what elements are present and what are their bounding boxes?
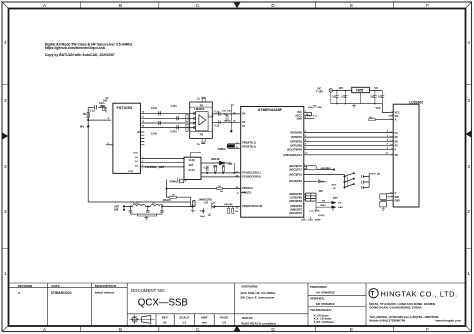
capacitor 33pF PA (200, 214, 211, 218)
wire top RC branch (88, 107, 106, 112)
svg-text:CLK2: CLK2 (189, 159, 196, 162)
svg-text:A: A (395, 119, 397, 122)
wire clk to FST S0 (147, 158, 185, 160)
svg-text:PREPARED:: PREPARED: (310, 285, 327, 289)
svg-text:(ADC3)PC3: (ADC3)PC3 (289, 174, 303, 177)
svg-text:B: B (119, 327, 122, 332)
wire VCC stub U1 (304, 111, 312, 113)
wire data bus RS (304, 154, 393, 156)
svg-text:ISP: ISP (319, 189, 323, 193)
transistor Q2 driver (199, 199, 216, 209)
svg-text:27K: 27K (213, 166, 218, 169)
svg-text:33pF: 33pF (200, 216, 206, 218)
resistor R 100K ladder b (186, 124, 188, 131)
wire audio line left (88, 201, 190, 203)
resistor 10u/10K out (222, 111, 231, 113)
svg-text:(INT1)PD3: (INT1)PD3 (290, 144, 302, 147)
capacitor 10u out (370, 90, 377, 103)
svg-text:3: 3 (4, 164, 7, 169)
svg-text:DAH: DAH (338, 206, 343, 209)
svg-text:(ADC4/SDA)PC4: (ADC4/SDA)PC4 (283, 154, 302, 157)
svg-text:Mobile:(+86)13725860769: Mobile:(+86)13725860769 (369, 319, 405, 323)
node audio junction (166, 188, 167, 189)
svg-text:0.1u: 0.1u (341, 96, 346, 99)
keyer net 10u (304, 180, 337, 190)
labels U1 power pins (305, 111, 309, 119)
labels U1 right pin names (283, 111, 302, 215)
svg-text:0.1u: 0.1u (200, 210, 205, 212)
diode D1 IN4148 (201, 157, 233, 166)
wire audio out 2 (212, 121, 240, 123)
crystal X2 27MHz (170, 178, 187, 184)
gate resistor 1K (167, 189, 191, 200)
wire AREF (304, 217, 311, 219)
company logo (369, 289, 461, 323)
labels 10K 10K pin16 (224, 204, 239, 209)
svg-text:10K: 10K (224, 114, 228, 116)
wire 5V feed to LCD (382, 104, 393, 113)
node rail junctions (336, 90, 375, 105)
svg-text:5V: 5V (106, 97, 109, 100)
capacitor 0.1u clk (204, 166, 209, 172)
svg-text:(TXD)PD1: (TXD)PD1 (291, 136, 303, 139)
svg-text:0.1u: 0.1u (214, 125, 219, 128)
buttons SW1-SW3 (344, 172, 381, 189)
svg-text:DESCRIPTION: DESCRIPTION (95, 284, 117, 288)
svg-text:PTT: PTT (333, 197, 338, 200)
clock box left pin stubs (182, 152, 201, 167)
ground power (331, 92, 356, 108)
svg-text:mm: mm (202, 321, 208, 325)
labels LCD pin numbers (390, 112, 393, 202)
svg-text:10K: 10K (227, 111, 231, 113)
svg-text:OVERVIEW: OVERVIEW (241, 284, 257, 288)
svg-text:7805: 7805 (356, 89, 364, 93)
wire T1 stub (241, 192, 304, 194)
svg-text:10u: 10u (228, 121, 232, 123)
resistor R 100K ladder a (186, 114, 188, 121)
svg-text:(MOSI)PB3: (MOSI)PB3 (289, 200, 302, 203)
rotary encoder ENC1 (304, 165, 335, 170)
svg-text:5V: 5V (375, 86, 378, 90)
wire I2C SDA (201, 176, 241, 178)
svg-text:K: K (395, 192, 397, 195)
capacitor 10u in (332, 90, 339, 103)
labels U1 left pin names (242, 113, 262, 209)
svg-text:IN4148: IN4148 (211, 157, 220, 161)
capacitor C1 0.1u (95, 105, 97, 109)
wire TX feedback to PB0 (167, 180, 241, 189)
svg-text:PB7(XTAL2): PB7(XTAL2) (242, 146, 256, 149)
svg-text:REV: REV (162, 316, 168, 320)
wire clk to FST S1 (147, 162, 185, 164)
svg-text:1K: 1K (222, 166, 225, 169)
projection symbol (130, 314, 155, 324)
node junctions clock (234, 172, 235, 173)
svg-text:2.5V: 2.5V (208, 115, 213, 118)
op-amp module dividers (190, 98, 213, 142)
svg-text:X.XX ±0.05mm: X.XX ±0.05mm (314, 320, 335, 324)
labels bus pin numbers left (305, 131, 308, 155)
svg-text:1K: 1K (83, 112, 86, 116)
crystal X1 20MHz (218, 142, 241, 151)
op-amp U3A triangle (199, 115, 206, 125)
label pins 23 24 (233, 112, 236, 122)
labels bus pin numbers right (386, 131, 389, 155)
wire power ground rail (331, 103, 383, 105)
svg-text:3: 3 (467, 164, 470, 169)
svg-text:E: E (350, 327, 353, 332)
op-amp U3A inner box (196, 112, 209, 131)
svg-text:Initial release: Initial release (95, 290, 115, 294)
svg-text:E: E (350, 3, 353, 8)
svg-text:RS: RS (395, 154, 399, 157)
svg-text:VERIFIED:: VERIFIED: (310, 297, 325, 301)
svg-text:ED 07MAR22: ED 07MAR22 (316, 302, 335, 306)
capacitor 0.1u out (378, 90, 384, 103)
jack J4 key/PTT (315, 197, 343, 211)
svg-text:0.1u: 0.1u (214, 110, 219, 113)
wire data bus D6 (304, 140, 393, 142)
svg-text:2: 2 (4, 209, 7, 214)
svg-text:1:1: 1:1 (182, 321, 187, 325)
svg-text:(ADC1)PC1: (ADC1)PC1 (289, 169, 303, 172)
svg-text:VCC: VCC (395, 111, 400, 114)
svg-text:VCC: VCC (376, 107, 381, 110)
svg-text:DOCUMENT NO:: DOCUMENT NO: (131, 288, 165, 293)
svg-text:100n: 100n (100, 105, 106, 108)
svg-text:BS170: BS170 (163, 198, 171, 202)
svg-text:3: 3 (4, 98, 7, 103)
svg-text:GND: GND (395, 199, 401, 202)
svg-text:12V: 12V (204, 202, 209, 205)
capacitor 1u bottom (197, 142, 205, 146)
inductor L3 (151, 203, 164, 206)
label R2 cluster (99, 97, 109, 108)
transistor Q1 BS170 (163, 198, 195, 207)
wire GND stub U1 (304, 118, 315, 120)
svg-text:PB6(XTAL1): PB6(XTAL1) (242, 141, 256, 144)
wire data bus D4 (304, 132, 393, 134)
wire AVCC stub U1 (304, 112, 312, 115)
svg-text:10u: 10u (370, 96, 375, 99)
svg-text:4: 4 (4, 40, 7, 45)
svg-text:1: 1 (467, 271, 470, 276)
svg-text:+5V: +5V (137, 131, 142, 134)
svg-text:0.1u: 0.1u (378, 96, 383, 99)
node bias bottom (231, 131, 233, 133)
svg-text:5W Class-E, transceiver: 5W Class-E, transceiver (240, 295, 275, 299)
IC U5 clock 74ACT00 (184, 157, 201, 179)
svg-text:QCX—SSB: QCX—SSB (138, 298, 188, 309)
svg-text:(INT0)PD2: (INT0)PD2 (290, 140, 302, 143)
node PA drain (192, 206, 193, 207)
IC U2 FST3253 (113, 103, 140, 173)
labels FST pin numbers (128, 112, 145, 174)
resistor R2 10K bias stack (103, 106, 105, 111)
svg-text:20MHz: 20MHz (218, 147, 227, 151)
svg-text:PC5(ADC5/SCL): PC5(ADC5/SCL) (242, 172, 260, 175)
svg-text:/CH2: /CH2 (128, 171, 134, 173)
resistor backlight 10x (369, 117, 375, 121)
capacitor C8 0.47u (177, 125, 179, 129)
svg-text:REVISION: REVISION (18, 284, 34, 288)
svg-text:10u: 10u (320, 180, 325, 183)
labels LCD pin names (395, 111, 401, 202)
svg-text:GND: GND (297, 117, 303, 120)
svg-text:LM4562: LM4562 (194, 107, 205, 111)
wire audio out 1 (212, 113, 240, 115)
resistor 10x bias (228, 206, 239, 214)
svg-text:5V: 5V (377, 172, 380, 176)
svg-text:PAGE: PAGE (220, 316, 228, 320)
svg-text:DATE: DATE (52, 284, 60, 288)
note text block (45, 43, 133, 57)
svg-text:+5V(0): +5V(0) (318, 215, 325, 217)
capacitor 1u top (197, 97, 205, 100)
wire LCD A backlight (375, 119, 393, 121)
capacitor LPF bank (129, 206, 164, 220)
svg-text:PC4(ADC4/SDA): PC4(ADC4/SDA) (242, 176, 261, 179)
svg-text:www.hingtak.com: www.hingtak.com (435, 319, 462, 323)
wire buttons net (304, 174, 345, 176)
LCD backlight transistor block (380, 193, 393, 210)
wire mic node to FST pin 2 (88, 119, 111, 121)
capacitor out coupling marks (219, 112, 221, 124)
resistor 1K clk (222, 166, 225, 172)
LCD module DS1 LCD1602 (393, 101, 423, 208)
capacitor C5 0.47u (159, 111, 161, 115)
svg-text:4.7K: 4.7K (315, 209, 320, 212)
svg-text:0.47u: 0.47u (151, 133, 158, 136)
svg-text:AU 07MAR22: AU 07MAR22 (316, 291, 335, 295)
wire ADC bias vertical (230, 104, 232, 132)
svg-text:(OC1A)PB1: (OC1A)PB1 (289, 180, 303, 183)
svg-text:0.1u: 0.1u (310, 210, 315, 212)
svg-text:QCX SSB, HF, 3.5-34Mhz: QCX SSB, HF, 3.5-34Mhz (240, 291, 275, 295)
svg-text:0.47u: 0.47u (171, 105, 178, 108)
inductor L2 (132, 203, 145, 206)
svg-text:RING: RING (320, 205, 326, 207)
label 0.1u 0.1u under vcc (307, 115, 318, 117)
svg-text:1u L2: 1u L2 (133, 203, 139, 205)
svg-text:12V: 12V (339, 86, 344, 90)
svg-text:https://github.com/threeme3/qc: https://github.com/threeme3/qcx-ssb (45, 46, 105, 50)
svg-text:100n: 100n (308, 219, 314, 221)
svg-text:0.1u: 0.1u (204, 167, 209, 170)
node mic junction (88, 119, 89, 120)
svg-text:UNIT: UNIT (201, 316, 208, 320)
svg-text:07/MAR/2022: 07/MAR/2022 (51, 291, 72, 295)
wire clk to FST S0b (147, 166, 185, 168)
resistor pullup pair bottom (310, 209, 325, 216)
power input connector J2 (316, 86, 333, 93)
wire I/Q lines to audio amp (147, 113, 196, 127)
svg-text:3: 3 (467, 98, 470, 103)
svg-text:DONGGUAN, GUANGDONG, CHINA: DONGGUAN, GUANGDONG, CHINA (369, 305, 422, 309)
svg-text:/CH1: /CH1 (133, 153, 139, 155)
svg-text:Copy by BATUAN with AutoCAD, 2: Copy by BATUAN with AutoCAD, 202/03/07 (45, 53, 115, 57)
svg-text:50R: 50R (114, 208, 119, 211)
svg-text:7~16V: 7~16V (316, 89, 324, 93)
svg-text:(ADC2)PC2: (ADC2)PC2 (289, 212, 303, 215)
wire mic bus vertical (87, 107, 89, 202)
node 5V rail vertical (233, 163, 235, 173)
wire data bus D5 (304, 136, 393, 138)
svg-text:NOETS:: NOETS: (242, 316, 253, 320)
wire I2C SCL (201, 172, 241, 174)
svg-text:Mic: Mic (80, 125, 85, 129)
svg-text:B: B (119, 3, 122, 8)
capacitor C6 0.47u (177, 116, 179, 120)
svg-text:ATMEGA328P: ATMEGA328P (258, 108, 283, 112)
svg-text:100n: 100n (317, 107, 323, 109)
svg-text:27MHz: 27MHz (170, 180, 179, 184)
svg-text:LR: LR (333, 188, 336, 190)
svg-text:OUT: OUT (189, 164, 195, 167)
svg-text:0.1u: 0.1u (313, 115, 318, 117)
svg-text:TOLERANCES:: TOLERANCES: (310, 308, 332, 312)
FST3253 left pin 2 (106, 144, 113, 146)
svg-text:PB2(OC1B/OC1E): PB2(OC1B/OC1E) (242, 205, 262, 208)
svg-text:RoHS REACH compliant: RoHS REACH compliant (241, 321, 276, 325)
capacitor C7 0.47u (159, 121, 161, 125)
svg-text:4: 4 (467, 40, 470, 45)
svg-text:+5V: +5V (228, 163, 233, 166)
svg-text:1K: 1K (172, 195, 175, 197)
svg-text:A0: A0 (163, 321, 167, 325)
capacitor 0.1u PA (200, 208, 205, 214)
svg-text:1: 1 (4, 271, 7, 276)
label 100 10K cluster (224, 121, 233, 123)
IC U1 ATMEGA328P (241, 107, 304, 218)
wire PB2 drive (214, 205, 240, 207)
ground PA (191, 207, 195, 213)
svg-text:F: F (426, 3, 429, 8)
wire LCD VO stub (389, 115, 394, 117)
mic jack J1 (80, 125, 89, 129)
FST3253 right pin stubs (140, 113, 146, 167)
resistor R1 1K (87, 113, 89, 118)
svg-text:LCD1602: LCD1602 (409, 101, 423, 105)
resistor 27K clk (213, 166, 218, 172)
svg-text:(XCK/T0)PD4: (XCK/T0)PD4 (287, 148, 303, 151)
svg-text:10u: 10u (332, 96, 337, 99)
svg-text:2: 2 (467, 209, 470, 214)
wire data bus E (304, 148, 393, 150)
svg-text:0.47u: 0.47u (151, 107, 158, 110)
svg-text:CLK1: CLK1 (189, 169, 196, 172)
svg-text:VO: VO (395, 115, 399, 118)
svg-text:0.47u: 0.47u (171, 130, 178, 133)
resistor 10K vertical a (226, 115, 228, 120)
wire data bus D7 (304, 144, 393, 146)
labels pins 27 28 (236, 171, 239, 177)
svg-text:KEY: KEY (332, 185, 337, 187)
svg-text:0.1u: 0.1u (307, 115, 312, 117)
label AREF caps (301, 218, 321, 221)
regulator U4 7805 (352, 87, 370, 92)
svg-text:encoder: encoder (321, 166, 331, 170)
wire antenna line (125, 205, 192, 207)
op-amp input pin squares (193, 112, 195, 128)
svg-text:(RXD)PD0: (RXD)PD0 (290, 132, 302, 135)
svg-text:100n: 100n (308, 107, 314, 109)
svg-text:T: T (371, 292, 375, 298)
ISP header J3 (304, 189, 323, 201)
capacitor 0.1u in (341, 90, 347, 103)
wire 12V rail (333, 89, 383, 91)
svg-text:HINGTAK CO., LTD.: HINGTAK CO., LTD. (381, 289, 458, 298)
resistor 33R (217, 186, 224, 193)
svg-text:SCALE: SCALE (179, 316, 189, 320)
svg-text:1/1: 1/1 (222, 321, 226, 325)
svg-text:PB0(ICP): PB0(ICP) (242, 187, 252, 190)
svg-text:0.1u: 0.1u (90, 108, 96, 112)
svg-text:FST3253: FST3253 (117, 106, 133, 110)
capacitor 100n vcc pair (308, 106, 323, 109)
svg-text:100n: 100n (301, 219, 307, 221)
svg-text:AREF: AREF (315, 218, 322, 221)
antenna connector J5 (114, 205, 125, 211)
wire 7805 gnd pin (360, 93, 362, 104)
svg-text:F: F (426, 327, 429, 332)
op-amp module U3 outer box (190, 102, 213, 138)
